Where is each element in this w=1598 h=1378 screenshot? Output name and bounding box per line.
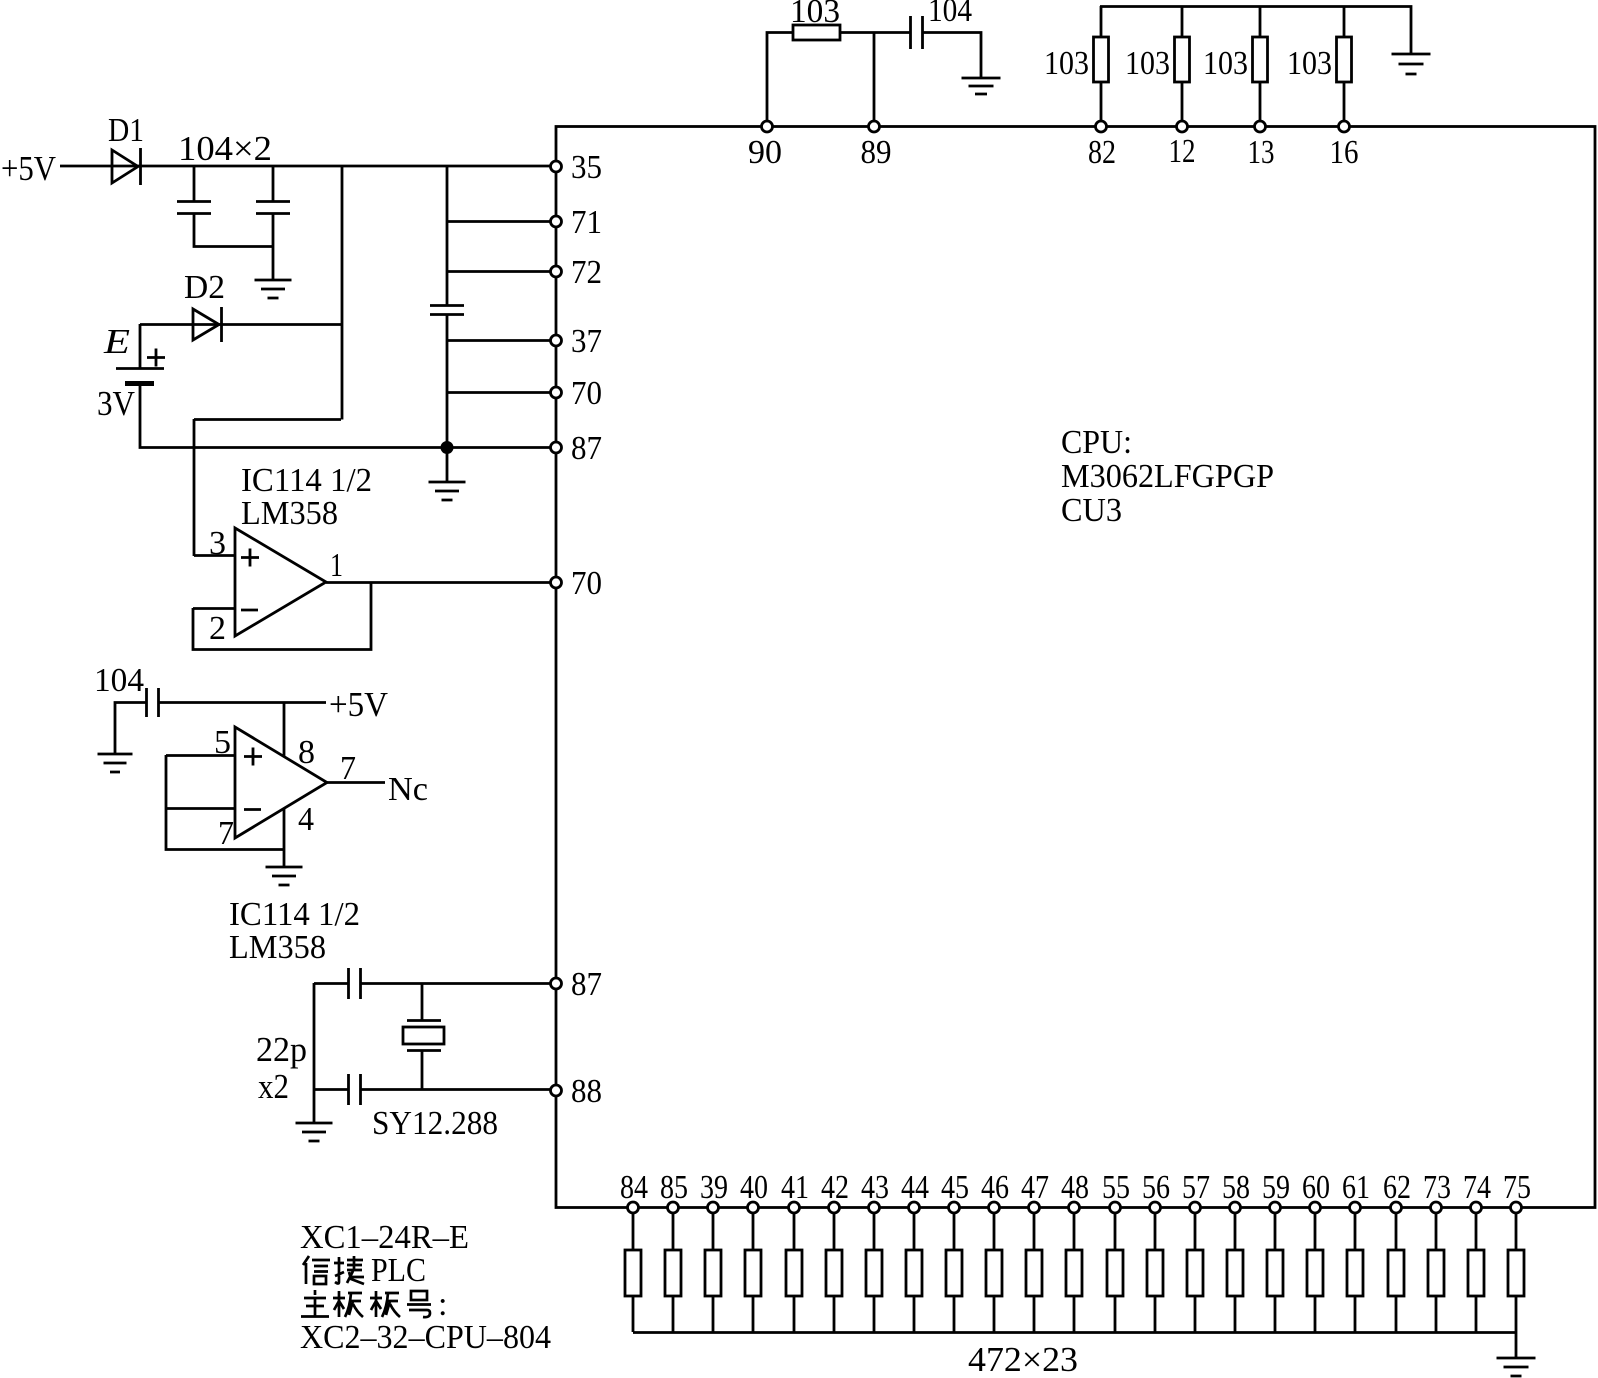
ground bottom right — [1497, 1358, 1536, 1376]
wire branch to pin 70 — [447, 391, 556, 394]
svg-text:82: 82 — [1088, 134, 1116, 171]
capacitor C2 (104) — [256, 202, 290, 214]
wire resistor 74 to bus — [1475, 1296, 1478, 1332]
svg-text:IC114 1/2: IC114 1/2 — [241, 462, 372, 499]
wire pin 48 to resistor — [1073, 1207, 1076, 1250]
svg-text:2: 2 — [209, 610, 226, 647]
svg-text:16: 16 — [1330, 134, 1359, 171]
pin 12 — [1177, 121, 1188, 132]
ground under C2 — [255, 280, 292, 298]
resistor 472 (pin 60) — [1307, 1250, 1323, 1296]
resistor 472 (pin 43) — [866, 1250, 882, 1296]
wire C3 to node 87 — [446, 314, 449, 481]
svg-text:SY12.288: SY12.288 — [372, 1105, 498, 1142]
wire C1 bottom stem — [194, 213, 273, 247]
svg-text:103: 103 — [790, 0, 840, 30]
wire C4 to +5V label — [158, 701, 326, 704]
resistor 103 (pin 13) — [1253, 37, 1268, 82]
ground under node 87 — [429, 482, 466, 500]
pin 16 — [1339, 121, 1350, 132]
svg-text:7: 7 — [340, 750, 356, 787]
ground under C4 — [98, 754, 133, 772]
pin 70 (left, y=582) — [551, 577, 562, 588]
svg-text:CU3: CU3 — [1061, 492, 1122, 529]
wire crystal left to ground — [313, 983, 316, 1122]
svg-text::: : — [438, 1286, 447, 1323]
pin 85 (bottom) — [668, 1202, 679, 1213]
resistor 472 (pin 59) — [1267, 1250, 1283, 1296]
pin 88 (left, y=1090) — [551, 1085, 562, 1096]
wire resistor 73 to bus — [1435, 1296, 1438, 1332]
ground right of pull-up bus — [1392, 54, 1431, 74]
resistor 472 (pin 75) — [1508, 1250, 1524, 1296]
wire pin 47 to resistor — [1033, 1207, 1036, 1250]
wire U1 feedback loop — [193, 582, 371, 650]
battery plus sign — [147, 349, 165, 367]
wire resistor 56 to bus — [1154, 1296, 1157, 1332]
resistor 472 (pin 47) — [1026, 1250, 1042, 1296]
svg-text:D1: D1 — [108, 112, 144, 149]
wire resistor 75 to bus — [1515, 1296, 1518, 1332]
svg-text:72: 72 — [571, 254, 602, 291]
capacitor C5 (22p) — [349, 968, 361, 999]
svg-text:45: 45 — [941, 1169, 969, 1206]
svg-text:57: 57 — [1182, 1169, 1210, 1206]
wire pin 90 to R103 — [767, 33, 793, 127]
wire D2 anode rail — [140, 323, 342, 326]
svg-text:90: 90 — [748, 134, 782, 171]
wire crystal bottom left — [314, 1088, 348, 1091]
wire resistor 46 to bus — [993, 1296, 996, 1332]
pin 41 (bottom) — [789, 1202, 800, 1213]
wire branch to pin 37 — [447, 339, 556, 342]
pin 60 (bottom) — [1310, 1202, 1321, 1213]
pin 61 (bottom) — [1350, 1202, 1361, 1213]
resistor 472 (pin 41) — [786, 1250, 802, 1296]
wire pin 59 to resistor — [1274, 1207, 1277, 1250]
wire resistor 55 to bus — [1114, 1296, 1117, 1332]
svg-text:56: 56 — [1142, 1169, 1170, 1206]
wire pin 75 to resistor — [1515, 1207, 1518, 1250]
wire branch to pin 72 — [447, 270, 556, 273]
wire pin 57 to resistor — [1194, 1207, 1197, 1250]
svg-text:39: 39 — [700, 1169, 728, 1206]
wire crystal Y1 bottom stem — [421, 1050, 424, 1089]
svg-text:87: 87 — [571, 966, 602, 1003]
svg-text:84: 84 — [620, 1169, 648, 1206]
wire pin 46 to resistor — [993, 1207, 996, 1250]
resistor 472 (pin 84) — [625, 1250, 641, 1296]
wire battery top stem — [139, 324, 142, 368]
svg-text:70: 70 — [571, 565, 602, 602]
svg-text:85: 85 — [660, 1169, 688, 1206]
wire pull resistor 1 top stem — [1100, 6, 1103, 37]
wire pull resistor 4 top stem — [1343, 6, 1346, 37]
svg-text:E: E — [103, 322, 130, 361]
svg-text:3: 3 — [209, 525, 226, 562]
svg-text:+5V: +5V — [329, 685, 388, 724]
pin 44 (bottom) — [909, 1202, 920, 1213]
pin 39 (bottom) — [708, 1202, 719, 1213]
svg-text:LM358: LM358 — [229, 929, 326, 966]
pin 35 (left, y=166) — [551, 161, 562, 172]
pin 90 — [762, 121, 773, 132]
wire resistor 60 to bus — [1314, 1296, 1317, 1332]
wire down to op-amp U1 pin 3 — [193, 419, 196, 556]
pin 56 (bottom) — [1150, 1202, 1161, 1213]
pin 87 (left, y=983) — [551, 978, 562, 989]
svg-text:74: 74 — [1463, 1169, 1491, 1206]
wire pin 45 to resistor — [953, 1207, 956, 1250]
wire C1 top stem — [193, 166, 196, 201]
svg-text:104: 104 — [928, 0, 972, 29]
resistor 103 (pin 16) — [1337, 37, 1352, 82]
svg-text:M3062LFGPGP: M3062LFGPGP — [1061, 458, 1274, 495]
svg-text:44: 44 — [901, 1169, 929, 1206]
wire resistor 84 to bus — [632, 1296, 635, 1332]
resistor 472 (pin 85) — [665, 1250, 681, 1296]
wire resistor 48 to bus — [1073, 1296, 1076, 1332]
junction node 87 — [441, 441, 454, 454]
wire resistor 61 to bus — [1354, 1296, 1357, 1332]
wire U2 pin 5 input — [166, 754, 235, 757]
resistor 472 (pin 61) — [1347, 1250, 1363, 1296]
svg-text:7: 7 — [218, 815, 234, 852]
svg-text:41: 41 — [781, 1169, 809, 1206]
wire pull resistor 2 bottom stem — [1181, 82, 1184, 126]
resistor 472 (pin 57) — [1187, 1250, 1203, 1296]
wire resistor 42 to bus — [833, 1296, 836, 1332]
wire pin 74 to resistor — [1475, 1207, 1478, 1250]
resistor 103 (pin 12) — [1175, 37, 1190, 82]
svg-text:87: 87 — [571, 430, 602, 467]
capacitor C3 — [430, 306, 464, 315]
ground under U2 — [266, 867, 303, 885]
ground under 22p caps — [296, 1123, 333, 1141]
wire U2 input tie box — [166, 755, 284, 850]
svg-text:103: 103 — [1287, 45, 1332, 82]
resistor 472 (pin 42) — [826, 1250, 842, 1296]
battery E 3V — [116, 369, 164, 384]
ground top right of C7 — [962, 78, 1001, 94]
resistor 472 (pin 74) — [1468, 1250, 1484, 1296]
svg-text:89: 89 — [861, 134, 892, 171]
wire resistor 40 to bus — [752, 1296, 755, 1332]
wire bottom ground bus — [633, 1331, 1516, 1334]
wire pin 58 to resistor — [1234, 1207, 1237, 1250]
wire C2 to ground — [272, 213, 275, 279]
svg-text:472×23: 472×23 — [968, 1340, 1078, 1378]
resistor 472 (pin 39) — [705, 1250, 721, 1296]
wire U1 pin 3 input — [194, 554, 235, 557]
svg-text:CPU:: CPU: — [1061, 424, 1132, 461]
svg-text:61: 61 — [1342, 1169, 1370, 1206]
wire pin 85 to resistor — [672, 1207, 675, 1250]
wire crystal top right to pin 87 — [360, 982, 556, 985]
wire bus to ground stem — [1515, 1332, 1518, 1357]
wire resistor 62 to bus — [1395, 1296, 1398, 1332]
pin 13 — [1255, 121, 1266, 132]
wire pull resistor 3 bottom stem — [1259, 82, 1262, 126]
resistor 103 (pin 82) — [1094, 37, 1109, 82]
pin 82 — [1096, 121, 1107, 132]
svg-text:103: 103 — [1044, 45, 1089, 82]
pin 73 (bottom) — [1431, 1202, 1442, 1213]
wire U2 pin 8 supply stem — [283, 702, 286, 757]
resistor 472 (pin 44) — [906, 1250, 922, 1296]
svg-text:40: 40 — [740, 1169, 768, 1206]
wire resistor 47 to bus — [1033, 1296, 1036, 1332]
pin 57 (bottom) — [1190, 1202, 1201, 1213]
svg-text:13: 13 — [1248, 134, 1275, 171]
svg-text:71: 71 — [571, 204, 602, 241]
pin 74 (bottom) — [1471, 1202, 1482, 1213]
wire +5V rail to pin 35 — [60, 165, 556, 168]
wire crystal top left — [314, 982, 348, 985]
svg-text:PLC: PLC — [371, 1252, 426, 1289]
wire branch to pin 71 — [447, 220, 556, 223]
svg-text:103: 103 — [1203, 45, 1248, 82]
wire resistor 39 to bus — [712, 1296, 715, 1332]
svg-text:12: 12 — [1169, 133, 1196, 170]
svg-text:37: 37 — [571, 323, 602, 360]
resistor R103 (top) — [793, 25, 840, 40]
resistor 472 (pin 73) — [1428, 1250, 1444, 1296]
wire pin 84 to resistor — [632, 1207, 635, 1250]
wire pin 56 to resistor — [1154, 1207, 1157, 1250]
wire node 89 stem — [873, 32, 876, 126]
wire U1 pin 2 input — [193, 607, 235, 610]
svg-text:1: 1 — [330, 547, 343, 584]
pin 45 (bottom) — [949, 1202, 960, 1213]
wire resistor 57 to bus — [1194, 1296, 1197, 1332]
svg-text:4: 4 — [298, 801, 314, 838]
diode D2 — [193, 307, 222, 342]
wire pull resistor 3 top stem — [1259, 6, 1262, 37]
pin 48 (bottom) — [1069, 1202, 1080, 1213]
CPU box outline U-CPU — [556, 127, 1595, 1208]
svg-text:Nc: Nc — [388, 771, 428, 808]
svg-text:48: 48 — [1061, 1169, 1089, 1206]
wire resistor 43 to bus — [873, 1296, 876, 1332]
svg-text:58: 58 — [1222, 1169, 1250, 1206]
resistor 472 (pin 40) — [745, 1250, 761, 1296]
wire resistor 58 to bus — [1234, 1296, 1237, 1332]
svg-text:35: 35 — [571, 149, 602, 186]
crystal Y1 SY12.288 — [403, 1021, 444, 1051]
svg-text:103: 103 — [1125, 45, 1170, 82]
pin 71 (left, y=221) — [551, 216, 562, 227]
pin 55 (bottom) — [1110, 1202, 1121, 1213]
wire battery negative to node 87 — [140, 383, 556, 448]
resistor 472 (pin 58) — [1227, 1250, 1243, 1296]
pin 46 (bottom) — [989, 1202, 1000, 1213]
wire resistor 85 to bus — [672, 1296, 675, 1332]
pin 58 (bottom) — [1230, 1202, 1241, 1213]
capacitor C6 (22p) — [349, 1074, 361, 1105]
svg-text:59: 59 — [1262, 1169, 1290, 1206]
wire C2 top stem — [272, 166, 275, 201]
svg-text:88: 88 — [571, 1073, 602, 1110]
svg-text:55: 55 — [1102, 1169, 1130, 1206]
pin 42 (bottom) — [829, 1202, 840, 1213]
wire pin 73 to resistor — [1435, 1207, 1438, 1250]
wire C4 to ground — [115, 703, 146, 755]
wire pin 62 to resistor — [1395, 1207, 1398, 1250]
wire resistor 45 to bus — [953, 1296, 956, 1332]
wire U2 pin 4 ground stem — [283, 808, 286, 867]
wire pull resistor 1 bottom stem — [1100, 82, 1103, 126]
wire resistor 41 to bus — [793, 1296, 796, 1332]
wire pin 60 to resistor — [1314, 1207, 1317, 1250]
svg-text:LM358: LM358 — [241, 495, 338, 532]
pin 72 (left, y=271) — [551, 266, 562, 277]
svg-text:x2: x2 — [258, 1067, 289, 1106]
svg-text:75: 75 — [1503, 1169, 1531, 1206]
capacitor C7 (104 top) — [911, 16, 923, 49]
svg-text:42: 42 — [821, 1169, 849, 1206]
wire crystal bottom right to pin 88 — [360, 1088, 556, 1091]
resistor 472 (pin 45) — [946, 1250, 962, 1296]
pin 43 (bottom) — [869, 1202, 880, 1213]
op-amp U2 — [235, 727, 327, 838]
pin 70 (left, y=392) — [551, 387, 562, 398]
svg-text:60: 60 — [1302, 1169, 1330, 1206]
wire pin 41 to resistor — [793, 1207, 796, 1250]
svg-text:62: 62 — [1383, 1169, 1411, 1206]
op-amp U1 — [235, 528, 326, 636]
pin 37 (left, y=340) — [551, 335, 562, 346]
pin 40 (bottom) — [748, 1202, 759, 1213]
capacitor C1 (104) — [177, 202, 211, 214]
wire U2 output Nc — [327, 781, 385, 784]
svg-text:47: 47 — [1021, 1169, 1049, 1206]
svg-text:43: 43 — [861, 1169, 889, 1206]
pin 59 (bottom) — [1270, 1202, 1281, 1213]
svg-text:104×2: 104×2 — [178, 129, 272, 168]
capacitor C4 (104) — [147, 688, 159, 717]
pin 84 (bottom) — [628, 1202, 639, 1213]
resistor 472 (pin 56) — [1147, 1250, 1163, 1296]
svg-text:+5V: +5V — [1, 149, 56, 188]
wire pin 42 to resistor — [833, 1207, 836, 1250]
svg-text:46: 46 — [981, 1169, 1009, 1206]
wire pin 43 to resistor — [873, 1207, 876, 1250]
wire +5V tap down to D2 cathode — [341, 166, 344, 420]
wire resistor 44 to bus — [913, 1296, 916, 1332]
svg-text:104: 104 — [94, 662, 144, 699]
wire D2 cathode link to op-amp input — [194, 418, 341, 421]
pin 62 (bottom) — [1391, 1202, 1402, 1213]
wire pin 39 to resistor — [712, 1207, 715, 1250]
resistor 472 (pin 46) — [986, 1250, 1002, 1296]
svg-text:70: 70 — [571, 375, 602, 412]
wire pull-up bus — [1100, 7, 1411, 54]
svg-text:XC2–32–CPU–804: XC2–32–CPU–804 — [300, 1319, 551, 1356]
svg-text:D2: D2 — [184, 269, 225, 306]
resistor 472 (pin 48) — [1066, 1250, 1082, 1296]
svg-text:22p: 22p — [256, 1030, 307, 1069]
wire crystal Y1 top stem — [421, 983, 424, 1020]
wire R103 to C7 node 89 — [840, 31, 910, 34]
resistor 472 (pin 55) — [1107, 1250, 1123, 1296]
pin 75 (bottom) — [1511, 1202, 1522, 1213]
wire pin 40 to resistor — [752, 1207, 755, 1250]
resistor 472 (pin 62) — [1388, 1250, 1404, 1296]
wire pull resistor 2 top stem — [1181, 6, 1184, 37]
pin 89 — [869, 121, 880, 132]
wire pull resistor 4 bottom stem — [1343, 82, 1346, 126]
wire resistor 59 to bus — [1274, 1296, 1277, 1332]
svg-text:3V: 3V — [97, 384, 135, 423]
svg-text:IC114 1/2: IC114 1/2 — [229, 896, 360, 933]
svg-text:73: 73 — [1423, 1169, 1451, 1206]
diode D1 — [112, 148, 141, 185]
wire pin 44 to resistor — [913, 1207, 916, 1250]
wire pin 55 to resistor — [1114, 1207, 1117, 1250]
pin 87 (left, y=447) — [551, 442, 562, 453]
wire U1 output to pin 70 — [326, 581, 556, 584]
svg-text:XC1–24R–E: XC1–24R–E — [300, 1219, 469, 1256]
label 信捷 PLC — [303, 1256, 364, 1284]
wire pin 61 to resistor — [1354, 1207, 1357, 1250]
wire +5V tap to C3 — [446, 166, 449, 305]
label 主板 板号: — [301, 1290, 431, 1317]
wire C7 to ground — [922, 33, 981, 79]
pin 47 (bottom) — [1029, 1202, 1040, 1213]
